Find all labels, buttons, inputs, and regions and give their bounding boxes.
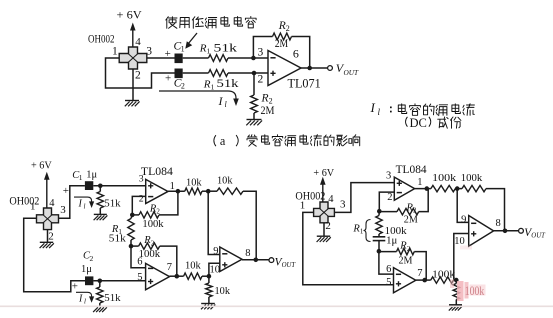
wire 10k to node (b) <box>202 190 217 192</box>
pin 1 label (c) <box>300 200 306 212</box>
svg-text:I: I <box>78 199 83 210</box>
wire node up to pin10 (c) <box>454 234 469 281</box>
svg-text:+: + <box>72 281 78 293</box>
op-amp U3B TL084 (c) <box>394 268 416 293</box>
pin 1 label (b) <box>30 201 36 213</box>
svg-text:1: 1 <box>112 46 118 58</box>
svg-text:2: 2 <box>48 230 54 242</box>
svg-text:2: 2 <box>407 245 411 253</box>
label C2 1u (b) <box>81 251 94 276</box>
svg-text:1: 1 <box>300 200 306 212</box>
resistor R1 51k middle (b) <box>109 215 134 246</box>
capacitor C1 (a) <box>165 48 183 63</box>
wire pin2 loop (b) <box>132 196 145 215</box>
label OH002 (c) <box>295 191 325 203</box>
resistor 10k third (b) <box>184 260 202 280</box>
svg-text:OUT: OUT <box>531 233 546 240</box>
label Vout (a) <box>336 61 359 77</box>
pin 3 label opamp A (c) <box>386 170 391 181</box>
svg-text:9: 9 <box>461 214 466 225</box>
junction output node (a) <box>307 66 312 71</box>
pin 6 label opamp B (b) <box>137 256 142 267</box>
svg-text:4: 4 <box>135 36 141 48</box>
svg-text:1μ: 1μ <box>386 234 397 246</box>
resistor 10k second (b) <box>217 175 243 195</box>
svg-text:OUT: OUT <box>344 68 360 77</box>
junction R1 top node (b) <box>130 213 135 218</box>
pin 5 label opamp B (b) <box>137 272 142 283</box>
label OH002 (b) <box>9 196 39 208</box>
svg-text:2: 2 <box>325 220 331 232</box>
label +6V (b) <box>31 159 52 171</box>
+6V supply arrow (b) <box>44 172 50 208</box>
svg-text:1μ: 1μ <box>86 170 97 181</box>
svg-text:7: 7 <box>167 262 172 273</box>
output wire opamp A (c) <box>415 188 431 190</box>
wire pin3 up to C1 row (b) <box>59 186 85 219</box>
ground under 51k 2 (b) <box>93 306 107 312</box>
wire 10k to node10 (b) <box>202 275 209 277</box>
svg-text:DC: DC <box>410 116 427 130</box>
wire to feedback down (c) <box>486 189 505 231</box>
wire pin5 from sensor pin1 (c) <box>303 212 394 284</box>
svg-text:R: R <box>199 43 207 55</box>
resistor R1 bottom 51k (a) <box>203 70 239 92</box>
svg-text:TL071: TL071 <box>288 76 321 90</box>
pin 3 opamp label (a) <box>258 46 264 58</box>
junction C1 node (b) <box>98 184 103 189</box>
resistor R2 2M opamp A (c) <box>379 188 428 226</box>
output wire (a) <box>301 67 327 69</box>
pin 3 label (b) <box>60 204 66 216</box>
pin 1 label opamp A (c) <box>417 177 422 188</box>
svg-text:51k: 51k <box>217 76 239 90</box>
junction output A (b) <box>176 189 181 194</box>
pin 3 label opamp A (b) <box>139 173 144 184</box>
terminal Vout (a) <box>328 66 333 71</box>
svg-text:2: 2 <box>139 194 144 205</box>
pin 5 label opamp B (c) <box>386 277 391 288</box>
svg-text:3: 3 <box>386 170 391 181</box>
junction R1 bottom node (b) <box>129 244 134 249</box>
svg-text:l: l <box>84 298 86 306</box>
junction C2 node (b) <box>98 279 103 284</box>
svg-text:I: I <box>78 294 83 305</box>
wire pin2 to ground (a) <box>132 69 134 100</box>
op-amp U3A TL084 (c) <box>394 177 414 200</box>
svg-text:8: 8 <box>496 218 501 229</box>
leakage current annotation arrow (a) <box>159 91 239 106</box>
svg-text:+: + <box>165 73 171 85</box>
op-amp U2A TL084 (b) <box>146 179 168 203</box>
svg-text:100k: 100k <box>465 284 485 298</box>
svg-text:100k: 100k <box>432 269 456 281</box>
pin 2 label opamp A (c) <box>387 192 392 203</box>
caption (a) <box>214 134 360 148</box>
svg-text:100k: 100k <box>142 219 164 230</box>
pin 9 label opamp C (b) <box>213 246 218 257</box>
svg-text:10k: 10k <box>217 175 233 187</box>
resistor R2 to ground 2M (a) <box>251 93 275 118</box>
junction 100k node (c) <box>455 186 460 191</box>
resistor 51k to ground 1 (b) <box>97 186 121 214</box>
svg-text:3: 3 <box>146 45 152 57</box>
svg-text:10k: 10k <box>186 176 202 188</box>
feedback wire right down (a) <box>292 37 310 69</box>
svg-text:l: l <box>84 203 86 211</box>
wire pin2 to ground (c) <box>323 223 325 236</box>
pin 10 label opamp C (b) <box>210 265 221 276</box>
svg-text:1: 1 <box>170 181 175 192</box>
pin 4 label (c) <box>328 194 334 205</box>
op-amp U2C TL084 (b) <box>220 247 242 272</box>
resistor R1 100k vertical (c) <box>376 211 407 237</box>
op-amp U3C TL084 (c) <box>469 216 494 247</box>
svg-text:1: 1 <box>30 201 36 213</box>
label C2 (a) <box>174 77 185 90</box>
svg-text:R: R <box>203 79 211 91</box>
pin 6 opamp label (a) <box>293 47 299 61</box>
legend text line1 <box>398 104 474 116</box>
ground under sensor (b) <box>40 242 54 248</box>
svg-text:3: 3 <box>258 46 264 58</box>
output wire opamp B (b) <box>170 275 184 277</box>
svg-text:8: 8 <box>245 248 250 259</box>
junction output A (c) <box>425 186 430 191</box>
svg-text:6: 6 <box>137 256 142 267</box>
svg-text:100k: 100k <box>461 172 483 184</box>
pin 8 label opamp C (b) <box>245 248 250 259</box>
svg-text:2M: 2M <box>399 255 413 267</box>
svg-text:10: 10 <box>454 236 465 247</box>
capacitor C2 1u (b) <box>72 276 94 292</box>
svg-text:R: R <box>278 20 286 32</box>
svg-text:51k: 51k <box>104 292 121 304</box>
wire R1 to opamp pin3 (a) <box>228 57 268 59</box>
svg-text:+: + <box>165 48 171 60</box>
wire node to pin9 (b) <box>208 191 220 254</box>
label TL084 (b) <box>141 164 173 178</box>
wire pin3 to C1 (a) <box>147 57 175 59</box>
svg-text:3: 3 <box>139 173 144 184</box>
svg-text:3: 3 <box>340 199 346 211</box>
junction bottom node (c) <box>454 278 459 283</box>
watermark baseline <box>0 305 553 307</box>
resistor R2 100k opamp B (b) <box>131 235 177 276</box>
op-amp U1 TL071 <box>268 51 301 86</box>
wire pin2 to ground (b) <box>47 230 49 242</box>
svg-text:4: 4 <box>49 198 55 209</box>
wire node to pin9 (c) <box>457 189 469 223</box>
pin 2 label (b) <box>48 230 54 242</box>
watermark pink blocks <box>450 246 486 302</box>
resistor R2 100k opamp A (b) <box>132 191 178 230</box>
output wire opamp A (b) <box>168 190 185 192</box>
capacitor C2 (a) <box>165 69 183 85</box>
svg-text:51k: 51k <box>214 41 238 55</box>
ground under 10k (b) <box>201 304 215 310</box>
output wire opamp C (b) <box>242 259 269 261</box>
svg-text:51k: 51k <box>109 233 127 245</box>
svg-text:4: 4 <box>328 194 334 205</box>
svg-text:I: I <box>370 100 376 115</box>
svg-text:6: 6 <box>386 264 391 275</box>
wire C1 to R1 (a) <box>183 57 209 59</box>
svg-text:3: 3 <box>60 204 66 216</box>
wire pin1 loop to C2 row (b) <box>24 218 85 291</box>
svg-text:7: 7 <box>417 268 422 279</box>
wire to feedback down (b) <box>243 191 256 260</box>
resistor 10k to ground (b) <box>206 276 231 303</box>
label 100k red (c) <box>465 284 485 298</box>
ground under 100k (c) <box>449 305 463 311</box>
pin 4 label (b) <box>49 198 55 209</box>
terminal Vout (c) <box>519 228 524 233</box>
wire node to pin6 (b) <box>131 246 146 268</box>
svg-text:1: 1 <box>79 173 83 182</box>
hall sensor OH002 (circuit c) <box>314 202 335 223</box>
pin 2 label (a) <box>135 70 141 82</box>
svg-text:2: 2 <box>286 24 290 33</box>
junction pin3 node (a) <box>251 56 256 61</box>
label +6V (c) <box>313 167 334 179</box>
annotation text: use low-leakage capacitor <box>166 17 256 29</box>
label OH002 (a) <box>88 32 115 46</box>
wire pin2 down to R2 (a) <box>253 73 255 95</box>
svg-text:OUT: OUT <box>282 262 297 269</box>
pin 1 label (a) <box>112 46 118 58</box>
annotation arrow to C1 <box>185 33 197 49</box>
svg-text:1: 1 <box>360 228 364 236</box>
junction node 10 (b) <box>207 274 212 279</box>
pin 8 label opamp C (c) <box>496 218 501 229</box>
label Vout (c) <box>524 227 546 240</box>
junction R1 top node (c) <box>377 209 382 214</box>
resistor R1 top 51k (a) <box>199 41 237 62</box>
ground under 51k 1 (b) <box>94 214 108 220</box>
svg-text:TL084: TL084 <box>141 164 173 178</box>
pin 10 label opamp C (c) <box>454 236 465 247</box>
resistor 100k to ground red (c) <box>453 280 459 304</box>
resistor 100k second (c) <box>455 172 486 192</box>
svg-text:2: 2 <box>90 254 94 263</box>
junction R2B node (c) <box>377 249 382 254</box>
svg-text:2: 2 <box>156 208 160 216</box>
svg-text:R: R <box>261 93 269 105</box>
leakage arrow Il 1 (b) <box>74 197 94 210</box>
junction output B (c) <box>422 278 427 283</box>
wire pin2 loop (c) <box>379 192 394 211</box>
junction output C (c) <box>503 229 508 234</box>
pin 2 label (c) <box>325 220 331 232</box>
output wire opamp C (c) <box>494 230 519 232</box>
terminal Vout (b) <box>269 258 274 263</box>
resistor R2 2M opamp B (c) <box>379 241 426 280</box>
wire node10 to pin10 (b) <box>209 263 220 276</box>
svg-text:1: 1 <box>181 45 185 54</box>
wire node to pin6 (c) <box>379 251 394 274</box>
label Vout (b) <box>275 256 297 269</box>
hall sensor OH002 (circuit a) <box>119 47 147 69</box>
label TL084 (c) <box>396 162 427 176</box>
resistor 10k first (b) <box>185 176 202 194</box>
svg-text:2: 2 <box>387 192 392 203</box>
+6V supply arrow (a) <box>130 23 136 48</box>
svg-text:5: 5 <box>386 277 391 288</box>
wire pin3 up to opamp A pin3 (c) <box>334 183 394 213</box>
junction pin2 node (a) <box>252 71 257 76</box>
label Il leakage current (a) <box>218 94 228 109</box>
capacitor 1u (c) <box>373 234 398 251</box>
wire pin1 loop to C2 row (a) <box>106 58 175 88</box>
ground under R2 (a) <box>246 120 262 126</box>
brace R1 (c) <box>352 220 370 242</box>
svg-text:2: 2 <box>258 73 264 85</box>
wire C2 to opamp B pin5 (b) <box>93 280 145 282</box>
svg-text:+: + <box>63 185 69 197</box>
pin 1 label opamp A (b) <box>170 181 175 192</box>
junction output B (b) <box>175 274 180 279</box>
resistor 51k to ground 2 (b) <box>97 281 122 306</box>
wire C1 to opamp A pin3 (b) <box>93 185 145 187</box>
svg-text:6: 6 <box>293 47 299 61</box>
svg-text:2: 2 <box>181 82 185 91</box>
label +6V (a) <box>117 8 143 22</box>
svg-text:+ 6V: + 6V <box>31 159 52 171</box>
svg-text:2M: 2M <box>261 105 275 117</box>
pin 9 label opamp C (c) <box>461 214 466 225</box>
wire R1 to opamp pin2 (a) <box>228 72 268 74</box>
pin 4 label (a) <box>135 36 141 48</box>
pin 3 label (c) <box>340 199 346 211</box>
wire R2 to ground (a) <box>253 113 255 119</box>
svg-text:1μ: 1μ <box>81 264 92 275</box>
feedback wire up (a) <box>253 37 272 59</box>
capacitor C1 1u (b) <box>63 181 94 197</box>
wire C2 to R1 (a) <box>183 72 209 74</box>
svg-text:10k: 10k <box>185 260 201 272</box>
legend text line2 <box>406 116 461 130</box>
pin 7 label opamp B (c) <box>417 268 422 279</box>
pin 2 opamp label (a) <box>258 73 264 85</box>
svg-text:+ 6V: + 6V <box>313 167 334 179</box>
svg-text:TL084: TL084 <box>396 162 427 176</box>
ground under sensor (a) <box>125 101 140 107</box>
svg-text:10k: 10k <box>215 285 231 297</box>
ground under sensor (c) <box>317 236 331 242</box>
resistor R2 feedback 2M (a) <box>273 20 292 50</box>
junction output C (b) <box>254 258 259 263</box>
resistor 100k third (c) <box>431 269 456 284</box>
svg-text:2M: 2M <box>275 38 289 50</box>
label TL071 <box>288 76 321 90</box>
svg-text:9: 9 <box>213 246 218 257</box>
svg-text:1: 1 <box>211 83 215 92</box>
label C1 (a) <box>174 40 185 53</box>
leakage arrow Il 2 (b) <box>76 292 94 305</box>
pin 2 label opamp A (b) <box>139 194 144 205</box>
pin 7 label opamp B (b) <box>167 262 172 273</box>
svg-text:10: 10 <box>210 265 221 276</box>
pin 6 label opamp B (c) <box>386 264 391 275</box>
label C1 1u (b) <box>72 170 97 182</box>
+6V supply arrow (c) <box>320 177 326 202</box>
svg-text:100k: 100k <box>432 172 457 184</box>
legend Il <box>370 100 392 117</box>
svg-text:2: 2 <box>135 70 141 82</box>
svg-text:1: 1 <box>207 47 211 56</box>
pin 3 label (a) <box>146 45 152 57</box>
output wire opamp B (c) <box>416 279 431 281</box>
svg-text:+ 6V: + 6V <box>117 8 143 22</box>
svg-text:1: 1 <box>417 177 422 188</box>
op-amp U2B TL084 (b) <box>146 263 170 289</box>
resistor 100k first (c) <box>431 172 457 192</box>
junction 10k node (b) <box>206 189 211 194</box>
svg-text:2M: 2M <box>404 214 418 226</box>
svg-text:51k: 51k <box>104 198 121 210</box>
hall sensor OH002 (circuit b) <box>37 208 59 230</box>
svg-text:OH002: OH002 <box>88 32 115 46</box>
svg-text:2: 2 <box>151 239 155 247</box>
svg-text:a: a <box>220 134 226 148</box>
